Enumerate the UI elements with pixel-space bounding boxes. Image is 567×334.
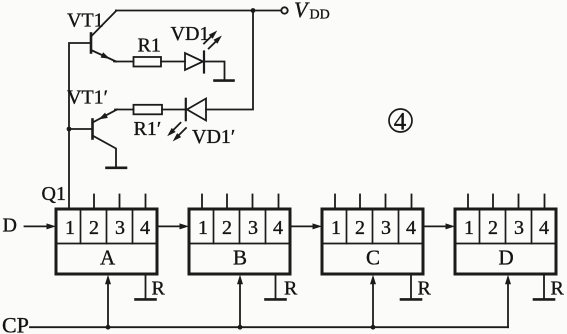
diode VD1 triangle	[185, 53, 203, 70]
svg-text:B: B	[233, 246, 247, 270]
svg-text:3: 3	[115, 217, 125, 239]
register B clock pin	[239, 283, 241, 327]
register B top pins	[201, 195, 203, 210]
register D reset pin	[543, 274, 545, 299]
svg-text:VD1: VD1	[171, 23, 210, 45]
svg-text:R1: R1	[138, 35, 161, 57]
svg-text:1: 1	[331, 217, 341, 239]
junction dot CP at B	[238, 325, 243, 330]
junction dot VT1' base tap	[67, 127, 72, 132]
register B reset pin	[275, 274, 277, 299]
transistor VT1' emitter arrowhead	[97, 113, 108, 123]
svg-text:D: D	[499, 246, 514, 270]
ground for A reset	[136, 298, 156, 301]
wire left vertical Q1 bus	[69, 43, 91, 209]
register B box	[189, 209, 290, 274]
wire emitter to R1	[114, 61, 134, 63]
register A reset pin	[145, 274, 147, 299]
svg-text:4: 4	[394, 109, 407, 136]
svg-text:R: R	[418, 278, 432, 300]
arrow A to B	[157, 225, 182, 227]
svg-text:1: 1	[464, 217, 474, 239]
ground for D reset	[534, 298, 554, 301]
junction dot CP at A	[106, 325, 111, 330]
svg-text:D: D	[3, 215, 17, 237]
transistor VT1 collector	[91, 11, 116, 37]
register A top pins	[93, 195, 95, 210]
svg-text:4: 4	[539, 217, 549, 239]
resistor R1'	[134, 105, 163, 115]
register C row divider	[324, 243, 422, 245]
register A box	[56, 209, 157, 274]
register B row divider	[191, 243, 289, 245]
ground for VT1'	[107, 167, 127, 170]
register C top pins	[334, 195, 336, 210]
LED VD1' light arrow 1	[172, 123, 181, 132]
svg-text:A: A	[100, 246, 116, 270]
register C reset pin	[410, 274, 412, 299]
svg-text:R1′: R1′	[134, 118, 162, 140]
svg-text:CP: CP	[2, 313, 29, 334]
svg-text:C: C	[366, 246, 380, 270]
svg-text:4: 4	[140, 217, 150, 239]
figure number circle 4	[389, 109, 412, 132]
transistor VT1 emitter	[91, 50, 116, 62]
transistor VT1 base bar	[90, 34, 93, 53]
ground for VD1	[215, 79, 234, 82]
svg-text:R: R	[284, 278, 298, 300]
diode VD1' triangle	[187, 99, 206, 121]
register B cell dividers	[213, 211, 215, 244]
svg-text:4: 4	[406, 217, 416, 239]
junction dot on VDD rail	[251, 8, 256, 13]
junction dot CP at C	[371, 325, 376, 330]
register A cell dividers	[80, 211, 82, 244]
diode VD1' cathode bar	[185, 99, 187, 120]
resistor R1	[134, 57, 162, 67]
ground for C reset	[401, 298, 421, 301]
register C clock pin	[372, 283, 374, 327]
svg-text:Q1: Q1	[42, 183, 66, 205]
svg-text:R: R	[152, 278, 166, 300]
wire base VT1'	[69, 128, 93, 130]
svg-text:3: 3	[381, 217, 391, 239]
register D row divider	[457, 243, 555, 245]
register D top pins	[467, 195, 469, 210]
D input arrow	[25, 225, 50, 227]
diode VD1 cathode bar	[203, 52, 205, 73]
transistor VT1 emitter arrowhead	[101, 52, 112, 61]
register C box	[322, 209, 423, 274]
LED VD1 light arrow 1	[204, 35, 213, 44]
arrow C to D	[423, 225, 448, 227]
register C cell dividers	[346, 211, 348, 244]
ground for B reset	[266, 298, 286, 301]
node VDD terminal circle	[281, 7, 287, 13]
svg-text:3: 3	[514, 217, 524, 239]
svg-text:4: 4	[273, 217, 283, 239]
transistor VT1' base bar	[91, 120, 94, 139]
svg-text:1: 1	[65, 217, 75, 239]
svg-text:DD: DD	[310, 8, 330, 23]
svg-text:2: 2	[89, 217, 99, 239]
register D clock pin	[507, 283, 509, 327]
wire R1 to VD1	[161, 61, 185, 63]
svg-text:2: 2	[355, 217, 365, 239]
wire emitter VT1' to R1'	[115, 109, 134, 111]
transistor VT1' collector	[93, 136, 117, 167]
svg-text:2: 2	[222, 217, 232, 239]
wire VDD top rail	[116, 10, 281, 12]
wire right vertical from VDD rail to VD1' line	[206, 11, 253, 110]
LED VD1' light arrow 2	[177, 128, 186, 137]
svg-text:VT1: VT1	[67, 10, 104, 32]
register D cell dividers	[479, 211, 481, 244]
register A clock pin	[107, 283, 109, 327]
wire VD1 to ground	[204, 62, 225, 81]
svg-text:VT1′: VT1′	[67, 87, 108, 109]
svg-text:2: 2	[488, 217, 498, 239]
arrow B to C	[290, 225, 315, 227]
register A row divider	[58, 243, 156, 245]
wire R1' to VD1'	[162, 109, 186, 111]
svg-text:VD1′: VD1′	[192, 126, 235, 148]
wire CP rail	[30, 326, 508, 328]
svg-text:3: 3	[248, 217, 258, 239]
register D box	[455, 209, 556, 274]
svg-text:1: 1	[198, 217, 208, 239]
svg-text:R: R	[551, 278, 565, 300]
LED VD1 light arrow 2	[209, 40, 218, 49]
transistor VT1' emitter	[93, 110, 118, 123]
